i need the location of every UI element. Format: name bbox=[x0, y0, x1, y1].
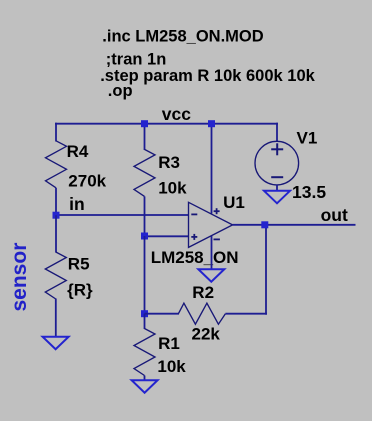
wire feedback node vertical bbox=[144, 236, 146, 314]
svg-text:vcc: vcc bbox=[162, 104, 191, 124]
svg-text:R3: R3 bbox=[158, 153, 180, 172]
svg-text:22k: 22k bbox=[192, 325, 221, 344]
svg-text:LM258_ON: LM258_ON bbox=[151, 248, 239, 267]
junction in node bbox=[53, 212, 60, 219]
op-amp U1 bbox=[189, 202, 233, 247]
ground under R5 bbox=[43, 337, 69, 350]
svg-text:R4: R4 bbox=[67, 142, 89, 161]
wire R2 right bbox=[225, 313, 267, 315]
wire feedback vertical right bbox=[265, 224, 267, 315]
junction vcc-U1 bbox=[208, 120, 215, 127]
wire U1 vee pin bbox=[211, 236, 213, 270]
svg-text:sensor: sensor bbox=[8, 243, 31, 312]
svg-text:V1: V1 bbox=[297, 129, 318, 148]
ground under U1 bbox=[198, 269, 224, 282]
svg-text:13.5: 13.5 bbox=[292, 182, 326, 202]
wire V1 bottom bbox=[276, 185, 278, 192]
junction out node bbox=[261, 221, 268, 228]
resistor R2 bbox=[178, 303, 225, 324]
svg-text:R5: R5 bbox=[68, 255, 90, 274]
wire R5 top bbox=[55, 215, 57, 252]
junction vcc-R3 bbox=[141, 120, 148, 127]
svg-text:10k: 10k bbox=[157, 357, 186, 376]
svg-text:U1: U1 bbox=[223, 193, 245, 212]
svg-text:;tran 1n: ;tran 1n bbox=[106, 51, 167, 69]
wire R3 bottom bbox=[144, 196, 146, 236]
wire R4 bottom bbox=[55, 188, 57, 216]
wire V1 top bbox=[276, 123, 278, 142]
junction plus input node bbox=[141, 233, 148, 240]
wire out node bbox=[233, 224, 356, 226]
resistor R1 bbox=[134, 329, 155, 376]
wire R1 top bbox=[144, 314, 146, 329]
ground under R1 bbox=[132, 380, 158, 393]
svg-text:out: out bbox=[321, 205, 348, 225]
voltage source V1 bbox=[255, 141, 299, 185]
svg-text:R1: R1 bbox=[158, 334, 180, 353]
resistor R3 bbox=[134, 149, 155, 196]
svg-text:{R}: {R} bbox=[67, 281, 93, 300]
svg-text:10k: 10k bbox=[158, 179, 187, 198]
svg-text:.op: .op bbox=[108, 82, 133, 100]
wire R5 bottom bbox=[55, 299, 57, 338]
wire R4 top bbox=[55, 123, 57, 142]
svg-text:.inc LM258_ON.MOD: .inc LM258_ON.MOD bbox=[102, 27, 263, 45]
wire in node horizontal bbox=[56, 214, 189, 216]
resistor R4 bbox=[46, 141, 67, 188]
wire noninverting input bbox=[145, 235, 189, 237]
wire R2 left bbox=[145, 313, 180, 315]
svg-text:270k: 270k bbox=[68, 171, 106, 190]
wire U1 vcc pin bbox=[211, 123, 213, 214]
junction R2-R1 node bbox=[141, 310, 148, 317]
resistor R5 bbox=[45, 252, 66, 299]
wire R1 bottom bbox=[144, 376, 146, 382]
wire vcc rail bbox=[55, 123, 278, 125]
svg-text:R2: R2 bbox=[192, 283, 214, 302]
wire R3 top bbox=[144, 123, 146, 150]
svg-text:in: in bbox=[69, 194, 85, 214]
ground under V1 bbox=[264, 191, 290, 204]
